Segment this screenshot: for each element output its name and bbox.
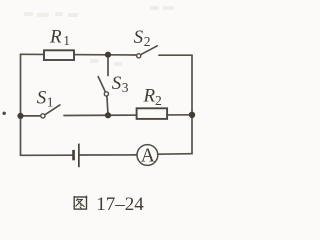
wire S3 branch upper (107, 55, 109, 76)
wire middle horizontal S1 to R2 to right (64, 114, 192, 117)
page background (0, 0, 201, 214)
switch S3 (98, 77, 108, 96)
node middle left junction (17, 113, 23, 119)
svg-text:R: R (49, 26, 62, 47)
svg-text:R: R (143, 86, 156, 107)
node middle right junction (189, 112, 195, 118)
resistor R2 (137, 108, 168, 119)
node top junction (105, 52, 111, 58)
wire middle horizontal left of S1 (21, 115, 41, 117)
battery cell: short thick negative plate (72, 150, 75, 160)
switch S1 (41, 105, 60, 118)
svg-text:3: 3 (122, 80, 129, 95)
svg-text:A: A (141, 145, 155, 166)
node middle junction (105, 112, 111, 118)
wire bottom left to battery (21, 154, 73, 156)
wire ammeter to right corner (158, 153, 192, 156)
svg-text:S: S (134, 27, 144, 48)
svg-text:1: 1 (63, 33, 70, 48)
svg-text:2: 2 (155, 93, 162, 108)
svg-text:S: S (112, 73, 122, 94)
battery cell: long thin positive plate (78, 144, 80, 168)
wire top horizontal left (through R1 position) (21, 53, 137, 56)
wire left vertical (20, 54, 22, 155)
wire S3 branch lower (107, 96, 108, 115)
svg-text:17–24: 17–24 (96, 194, 144, 214)
faint bleedthrough ghosts (24, 6, 174, 66)
svg-text:1: 1 (47, 94, 54, 109)
svg-text:S: S (37, 87, 47, 108)
wire right vertical (191, 55, 193, 154)
caption: 图 glyph drawn (74, 196, 86, 209)
ink smudge left edge (2, 112, 5, 115)
resistor R1 (44, 50, 74, 60)
switch S2 (137, 46, 158, 58)
ammeter A (137, 145, 158, 166)
svg-text:2: 2 (144, 34, 151, 49)
wire top right after S2 (159, 54, 192, 56)
wire battery to ammeter (80, 154, 137, 156)
